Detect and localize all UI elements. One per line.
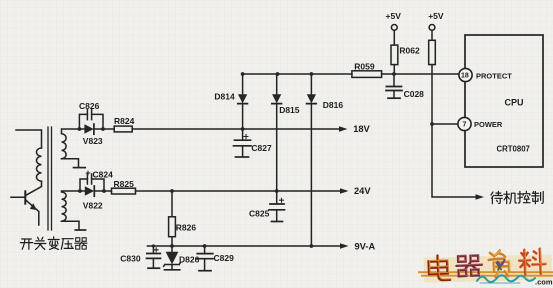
svg-text:.com: .com <box>535 278 553 287</box>
svg-text:D816: D816 <box>323 100 344 110</box>
svg-text:CRT0807: CRT0807 <box>497 145 530 154</box>
svg-text:7: 7 <box>463 122 467 129</box>
svg-text:CPU: CPU <box>505 98 524 108</box>
svg-text:V822: V822 <box>83 200 103 210</box>
svg-text:R059: R059 <box>354 62 375 72</box>
svg-text:9V-A: 9V-A <box>355 241 376 251</box>
svg-text:R824: R824 <box>114 116 135 126</box>
svg-text:C825: C825 <box>249 208 270 218</box>
svg-text:D826: D826 <box>179 254 200 264</box>
svg-text:POWER: POWER <box>474 120 503 129</box>
svg-text:C824: C824 <box>93 170 114 180</box>
svg-text:PROTECT: PROTECT <box>476 71 512 80</box>
svg-text:C827: C827 <box>251 143 272 153</box>
svg-text:R825: R825 <box>114 179 135 189</box>
svg-text:D815: D815 <box>279 105 300 115</box>
svg-text:V823: V823 <box>83 136 103 146</box>
svg-text:C829: C829 <box>214 253 235 263</box>
svg-text:C826: C826 <box>79 101 100 111</box>
svg-text:+5V: +5V <box>428 11 444 21</box>
svg-text:C830: C830 <box>120 254 141 264</box>
svg-text:18: 18 <box>461 73 469 80</box>
svg-text:+5V: +5V <box>386 11 402 21</box>
svg-text:18V: 18V <box>353 124 370 134</box>
svg-text:R826: R826 <box>176 223 197 233</box>
svg-text:R062: R062 <box>399 46 420 56</box>
svg-text:D814: D814 <box>214 92 235 102</box>
svg-text:24V: 24V <box>354 186 371 196</box>
svg-text:C028: C028 <box>404 89 425 99</box>
